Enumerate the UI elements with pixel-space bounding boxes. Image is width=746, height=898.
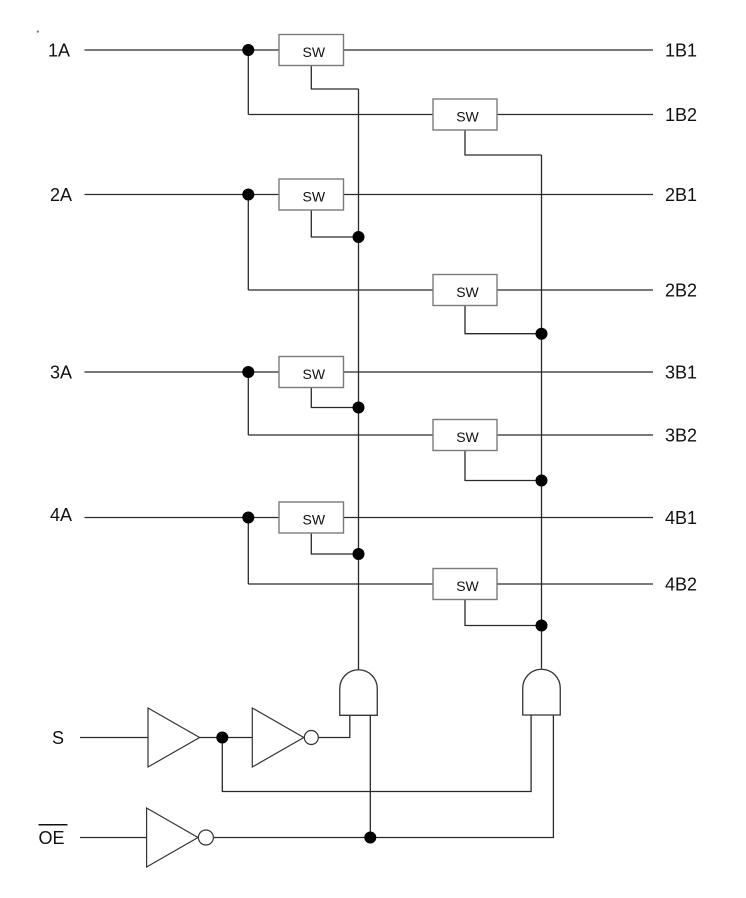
- svg-text:3A: 3A: [50, 362, 72, 382]
- wire 2B1 output: [344, 194, 654, 196]
- node 2A junction: [242, 189, 254, 201]
- wire 2A drop to 2B2: [247, 195, 249, 291]
- node S buffered junction: [216, 732, 228, 744]
- wire SW7 control: [465, 451, 542, 481]
- node SW4 control junction: [353, 548, 365, 560]
- wire SW2 control: [311, 210, 358, 237]
- switch SW2: [279, 179, 344, 210]
- wire select-true vertical bus: [358, 89, 360, 670]
- svg-text:1A: 1A: [48, 40, 70, 60]
- svg-text:SW: SW: [456, 429, 479, 445]
- node SW2 control junction: [353, 231, 365, 243]
- and-gate G2: [523, 669, 561, 715]
- wire 3B2 left: [248, 434, 433, 436]
- wire OE input: [80, 837, 147, 839]
- wire 1B1 output: [344, 49, 654, 51]
- wire S input: [80, 737, 148, 739]
- wire 3B1 output: [344, 371, 654, 373]
- svg-text:4B1: 4B1: [665, 508, 697, 528]
- svg-text:OE: OE: [39, 828, 65, 848]
- wire 1A input: [85, 49, 280, 51]
- svg-text:SW: SW: [456, 108, 479, 124]
- svg-text:SW: SW: [303, 188, 326, 204]
- svg-text:2A: 2A: [50, 185, 72, 205]
- wire 4A input: [85, 517, 280, 519]
- wire 2A input: [85, 194, 280, 196]
- wire 1B2 output: [497, 114, 653, 116]
- svg-text:S: S: [52, 728, 64, 748]
- wire SW6 control: [465, 306, 542, 334]
- svg-text:3B2: 3B2: [665, 425, 697, 445]
- inverter U2: [252, 708, 318, 767]
- node SW7 control junction: [536, 475, 548, 487]
- svg-text:SW: SW: [303, 366, 326, 382]
- switch SW6: [433, 275, 497, 306]
- wire SW3 control: [311, 388, 358, 408]
- inverter U3: [147, 808, 214, 867]
- wire 4A drop to 4B2: [247, 518, 249, 585]
- svg-text:3B1: 3B1: [665, 362, 697, 382]
- switch SW7: [433, 420, 497, 451]
- svg-text:SW: SW: [303, 511, 326, 527]
- node 3A junction: [242, 366, 254, 378]
- and-gate G1: [340, 670, 378, 716]
- svg-text:2B2: 2B2: [665, 280, 697, 300]
- svg-text:1B2: 1B2: [665, 105, 697, 125]
- speck artifact: [37, 31, 39, 33]
- wire 4B2 left: [248, 583, 433, 585]
- switch SW5: [433, 99, 497, 130]
- wire inverted OE to AND G1: [369, 715, 371, 837]
- wire 3A input: [85, 371, 280, 373]
- svg-text:4A: 4A: [50, 505, 72, 525]
- node OE inverted junction: [364, 832, 376, 844]
- svg-text:SW: SW: [456, 284, 479, 300]
- buffer U1: [148, 708, 200, 767]
- wire 3A drop to 3B2: [247, 372, 249, 435]
- wire 2B2 output: [497, 289, 653, 291]
- wire inverted S to AND G1: [318, 715, 350, 737]
- wire inverted OE to AND G2: [213, 715, 553, 838]
- svg-text:2B1: 2B1: [665, 185, 697, 205]
- switch SW1: [279, 35, 344, 66]
- wire SW8 control: [465, 600, 542, 626]
- wire 2B2 left: [248, 289, 433, 291]
- svg-text:SW: SW: [456, 578, 479, 594]
- wire S branch to AND G2: [222, 715, 531, 792]
- svg-text:SW: SW: [303, 44, 326, 60]
- node 1A junction: [242, 44, 254, 56]
- wire 4B1 output: [344, 517, 654, 519]
- svg-text:4B2: 4B2: [665, 574, 697, 594]
- node SW6 control junction: [536, 328, 548, 340]
- wire SW4 control: [311, 533, 358, 554]
- wire 4B2 output: [497, 583, 653, 585]
- switch SW4: [279, 502, 344, 533]
- node SW3 control junction: [353, 402, 365, 414]
- wire S buffered node: [200, 737, 253, 739]
- node SW8 control junction: [536, 620, 548, 632]
- switch SW3: [279, 357, 344, 388]
- wire 1B2 left: [248, 114, 433, 116]
- label OE: [39, 825, 68, 848]
- svg-text:1B1: 1B1: [665, 40, 697, 60]
- wire SW5 control: [465, 130, 542, 155]
- wire SW1 control: [311, 66, 358, 90]
- wire select-false vertical bus: [541, 155, 543, 669]
- switch SW8: [433, 569, 497, 600]
- node 4A junction: [242, 512, 254, 524]
- wire 1A drop to 1B2: [247, 50, 249, 115]
- wire 3B2 output: [497, 434, 653, 436]
